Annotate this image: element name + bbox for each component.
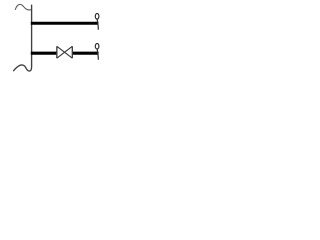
valve V1 bowtie left bar (56, 46, 58, 58)
wire bottom-right horizontal thick (72, 52, 98, 55)
wire vertical with corner into bottom squiggle (14, 5, 32, 71)
valve V1 bowtie diagonals (57, 46, 72, 58)
valve V1 bowtie right bar (71, 46, 73, 58)
wire top horizontal thick (31, 22, 99, 25)
terminal pigtail top-right loop (95, 13, 99, 19)
terminal pigtail bottom-right tail (97, 49, 98, 59)
wire bottom-left horizontal thick (31, 52, 57, 55)
flexible lead squiggle top-left (15, 4, 31, 10)
terminal pigtail bottom-right loop (95, 44, 99, 50)
terminal pigtail top-right tail (97, 19, 98, 29)
